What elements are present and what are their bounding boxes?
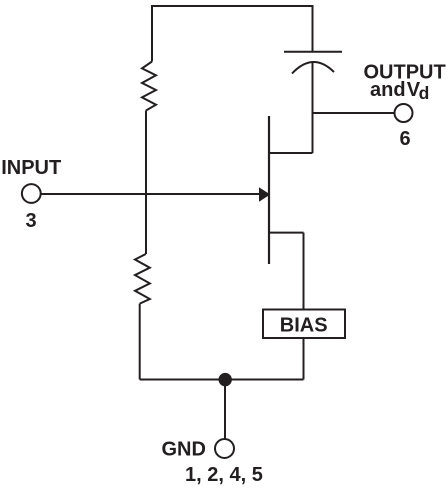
wire top rail xyxy=(151,5,314,7)
svg-text:GND: GND xyxy=(162,439,206,461)
resistor R2 xyxy=(135,254,150,304)
capacitor C1 curved bottom plate xyxy=(292,62,334,74)
BIAS box xyxy=(263,310,345,339)
svg-text:1, 2, 4, 5: 1, 2, 4, 5 xyxy=(185,464,263,486)
wire BIAS box to bottom rail xyxy=(303,338,305,380)
wire bottom rail xyxy=(140,379,304,381)
terminal circle OUTPUT pin 6 xyxy=(395,104,413,122)
wire output branch xyxy=(313,112,395,114)
wire left rail lower (R2 to bottom rail) xyxy=(139,304,141,380)
terminal circle GND pins 1,2,4,5 xyxy=(215,439,234,458)
wire capacitor C1 top lead xyxy=(312,5,314,52)
wire capacitor C1 bottom lead to drain xyxy=(312,63,314,154)
svg-text:andVd: andVd xyxy=(370,79,429,103)
svg-text:BIAS: BIAS xyxy=(280,314,328,336)
transistor Q1 source connection xyxy=(269,232,304,234)
capacitor C1 top plate xyxy=(284,51,342,53)
transistor Q1 drain connection xyxy=(269,152,313,154)
resistor R1 xyxy=(142,62,156,111)
terminal circle INPUT pin 3 xyxy=(22,184,41,203)
transistor Q1 gate arrowhead xyxy=(260,188,270,201)
junction dot at bottom rail xyxy=(219,373,232,386)
wire input (gate) xyxy=(41,193,261,195)
svg-text:3: 3 xyxy=(26,210,37,232)
svg-text:6: 6 xyxy=(400,128,411,150)
svg-text:INPUT: INPUT xyxy=(1,157,61,179)
transistor Q1 channel bar xyxy=(268,116,270,264)
wire source to BIAS box xyxy=(303,233,305,310)
wire left rail upper (top to resistor R1) xyxy=(151,5,153,62)
wire left rail middle (R1 to resistor R2, crosses input wire) xyxy=(145,111,147,255)
wire ground lead xyxy=(224,380,226,439)
